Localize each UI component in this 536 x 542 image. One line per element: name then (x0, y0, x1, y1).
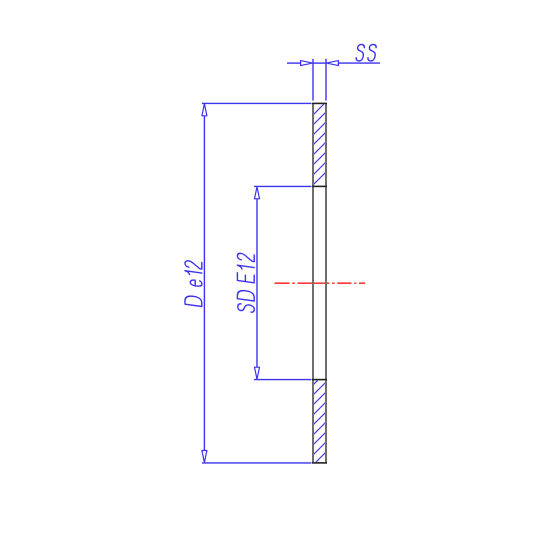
washer section outline verticals (313, 103, 326, 463)
dimension SD E12 dimension line (256, 199, 258, 367)
dimension S dimension line (287, 62, 380, 64)
label SD E12 (237, 253, 254, 313)
hatching lower section (313, 380, 325, 462)
centerline (red dash-dot axis) (275, 282, 366, 284)
dimension D e12 extension lines (202, 103, 312, 463)
dimension D e12 arrow down (202, 451, 207, 463)
label D e12 (185, 260, 202, 306)
dimension S extension line left (312, 59, 314, 101)
dimension SD E12 arrow up (255, 187, 260, 199)
washer section outline horizontals (312, 103, 327, 463)
dimension S arrow pointing left (326, 61, 338, 66)
label SS (356, 45, 377, 62)
dimension D e12 dimension line (203, 116, 205, 450)
dimension SD E12 extension lines (254, 186, 312, 379)
dimension S arrow pointing right (301, 61, 313, 66)
dimension S extension line right (325, 59, 327, 101)
dimension D e12 arrow up (202, 104, 207, 116)
hatching upper section (313, 104, 325, 185)
dimension SD E12 arrow down (255, 367, 260, 379)
